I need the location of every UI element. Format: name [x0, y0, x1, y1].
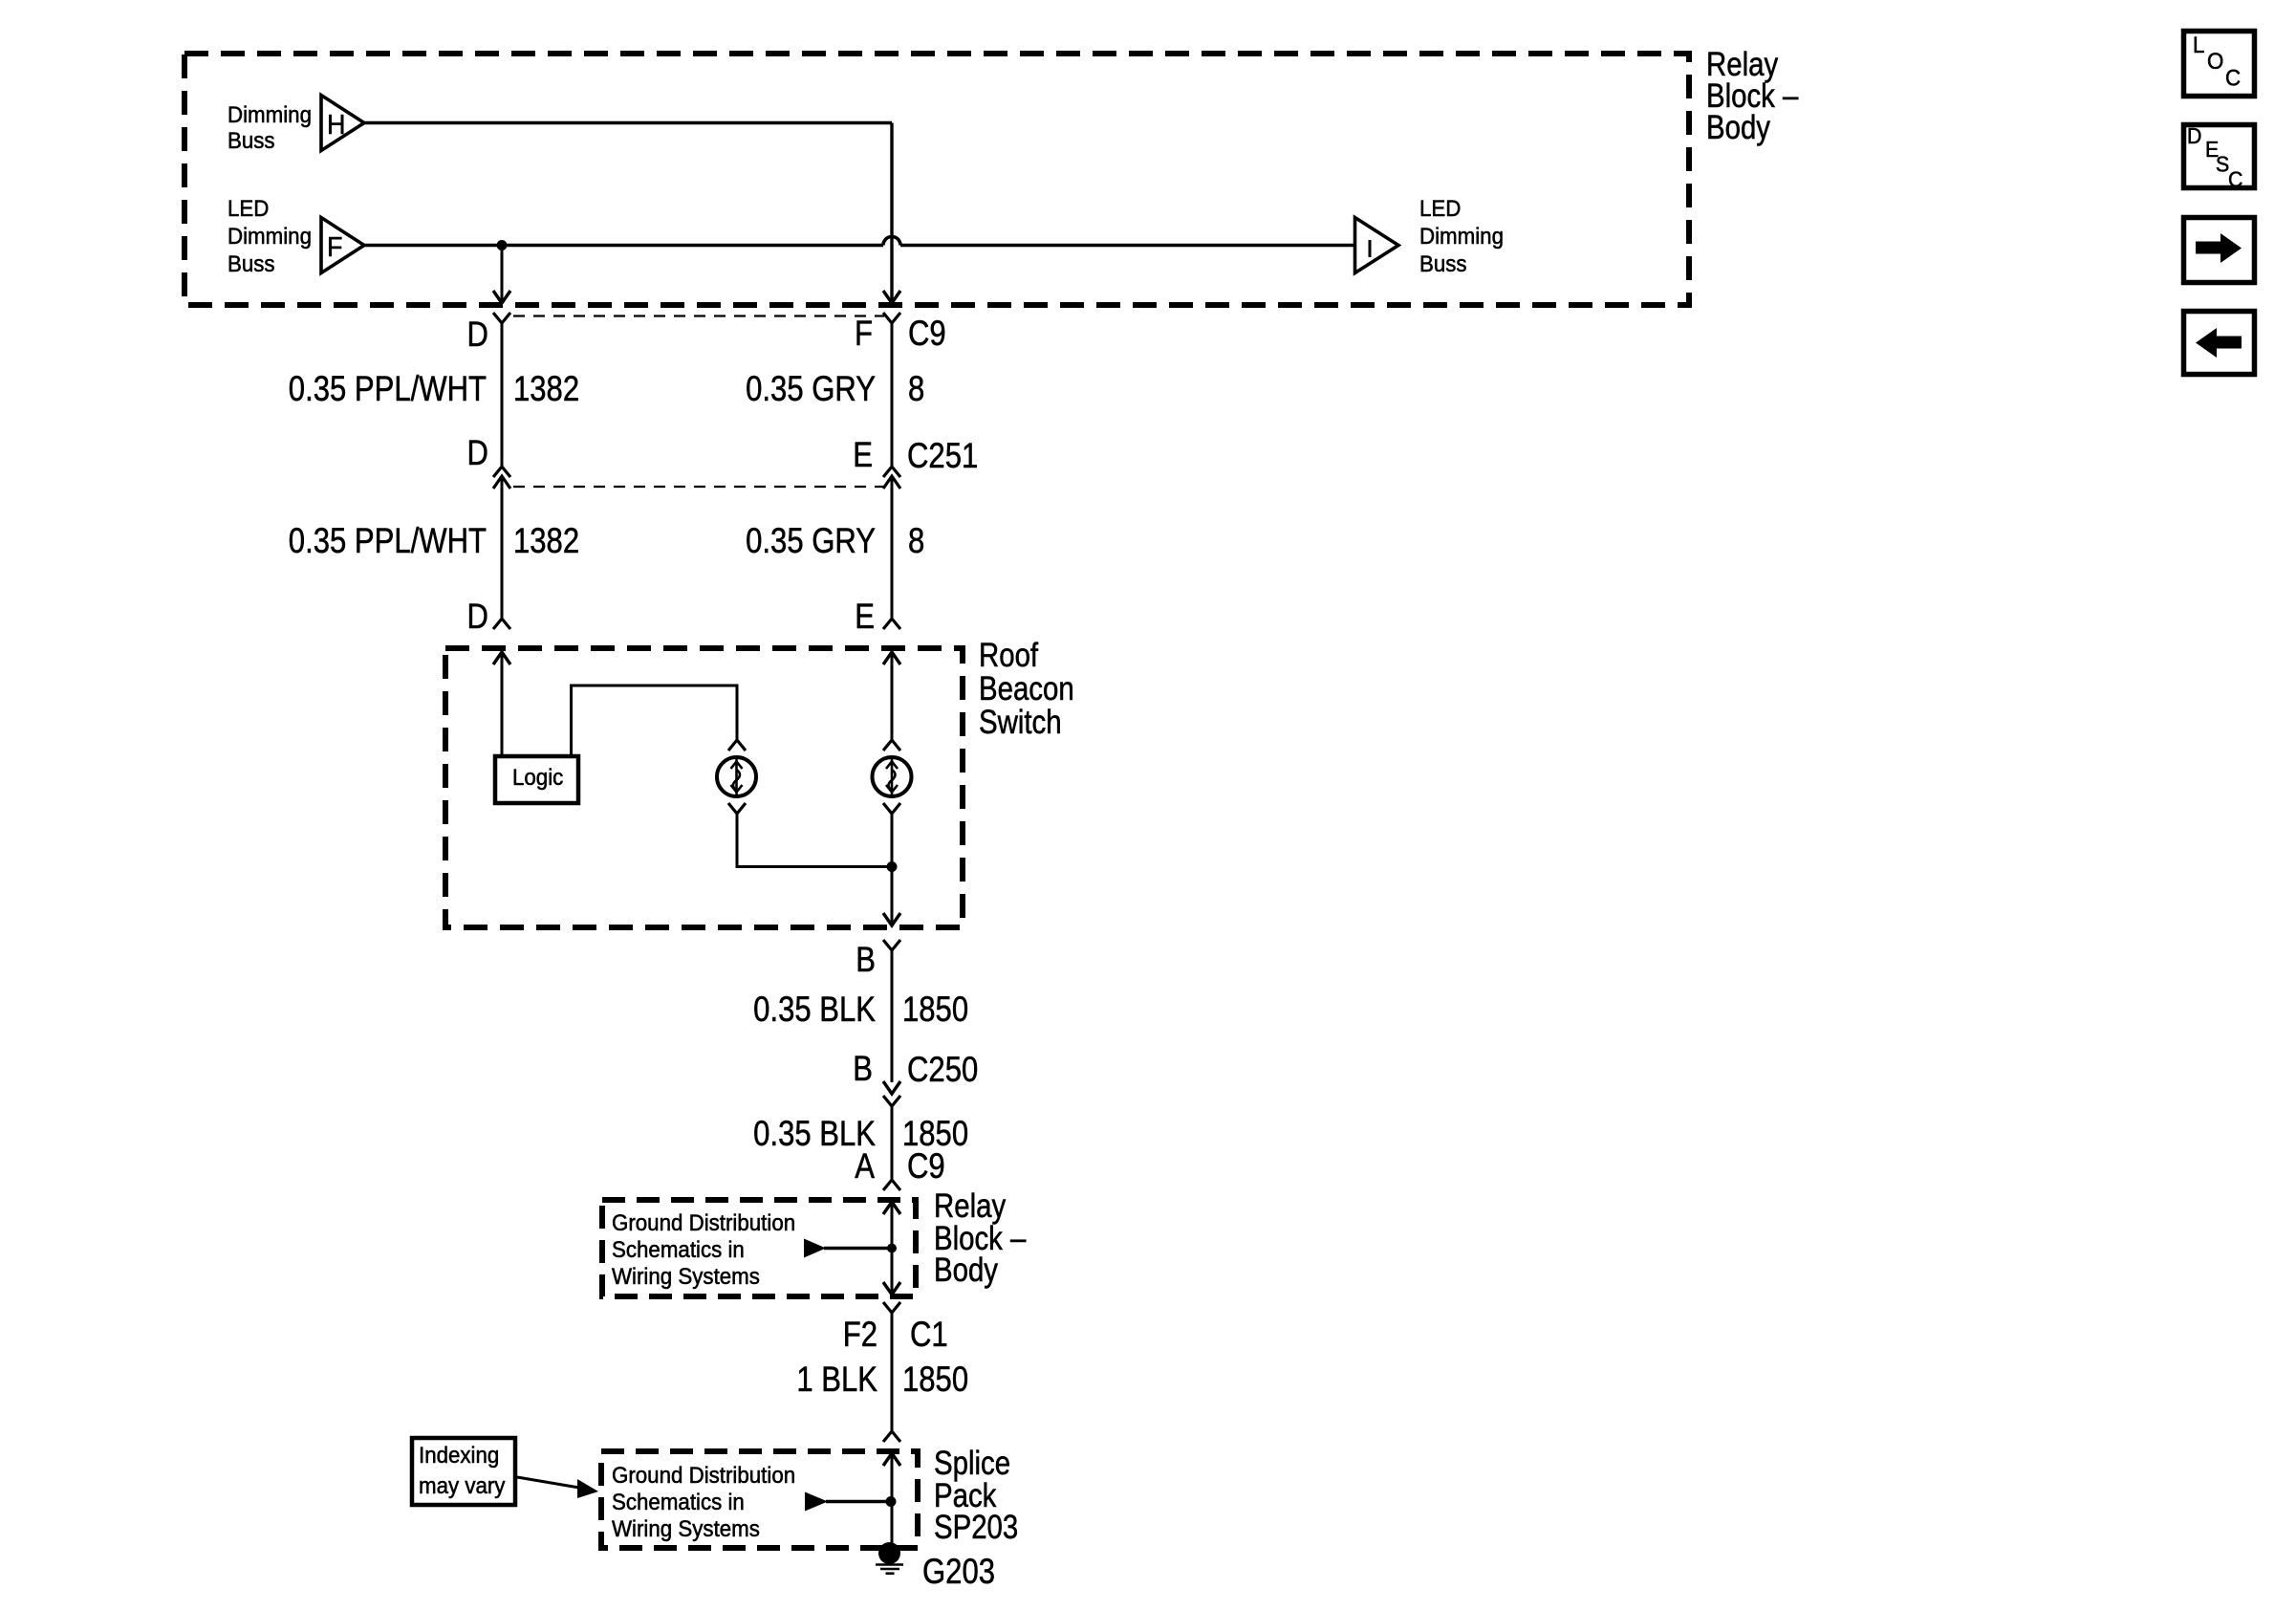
- label Splice Pack SP203: [934, 1445, 1018, 1546]
- connector label C1: [910, 1316, 948, 1355]
- label Relay Block - Body (lower): [934, 1187, 1026, 1289]
- splice pack dashed box: [601, 1451, 918, 1548]
- svg-text:Ground Distribution: Ground Distribution: [612, 1209, 795, 1235]
- svg-text:D: D: [467, 316, 488, 355]
- connector C251 thin dashed interface line: [513, 486, 884, 488]
- svg-text:C251: C251: [907, 437, 978, 476]
- label LED Dimming Buss (F): [227, 195, 312, 276]
- label Relay Block - Body (top): [1706, 46, 1798, 146]
- svg-text:H: H: [327, 109, 345, 140]
- svg-text:O: O: [2207, 48, 2223, 74]
- wire 1382 segment 1: [501, 323, 504, 467]
- svg-text:F2: F2: [843, 1316, 877, 1355]
- svg-text:G203: G203: [922, 1553, 995, 1592]
- svg-text:C: C: [2228, 167, 2242, 192]
- wire label 1850 (2): [902, 1115, 968, 1154]
- wire vertical drop from H buss: [890, 123, 893, 303]
- svg-text:Indexing: Indexing: [419, 1442, 499, 1468]
- wire 8 segment 2: [891, 476, 894, 618]
- svg-text:B: B: [856, 941, 876, 980]
- wire 1382 segment 2: [501, 476, 504, 618]
- svg-text:Wiring Systems: Wiring Systems: [612, 1263, 760, 1289]
- wire pin D to logic: [501, 652, 504, 754]
- wire F buss left segment: [364, 244, 883, 248]
- label LED Dimming Buss (I): [1419, 195, 1504, 276]
- junction dot on F buss: [497, 240, 508, 250]
- svg-text:Dimming: Dimming: [1419, 223, 1504, 249]
- ground distribution note (relay block): [612, 1209, 795, 1289]
- svg-text:C9: C9: [907, 1147, 945, 1186]
- connector triangle H: [321, 96, 364, 151]
- inverted-Y above splice pack: [883, 1431, 900, 1442]
- connector triangle F: [321, 218, 364, 273]
- junction dot (relay block): [887, 1244, 897, 1253]
- connector label C250: [907, 1051, 978, 1090]
- label Dimming Buss (H): [227, 101, 312, 153]
- wire label 1850 (3): [902, 1361, 968, 1400]
- pin label B at C250: [853, 1050, 873, 1089]
- svg-text:Buss: Buss: [1419, 250, 1467, 276]
- svg-text:A: A: [855, 1147, 875, 1186]
- svg-text:Logic: Logic: [512, 764, 563, 790]
- wire pin E down to right lamp: [891, 652, 894, 741]
- right lamp lower Y: [883, 803, 900, 814]
- connector label C9 (lower): [907, 1147, 945, 1186]
- wire label 1382 (1): [513, 370, 579, 409]
- svg-text:D: D: [2187, 123, 2201, 148]
- ground feed wire (splice pack): [826, 1500, 892, 1503]
- right lamp inverted-Y: [883, 740, 900, 751]
- svg-text:F: F: [855, 315, 873, 354]
- svg-text:1850: 1850: [902, 991, 968, 1030]
- wire through relay block: [891, 1202, 894, 1294]
- left lamp (indicator): [717, 757, 756, 796]
- connector C9 thin dashed interface line: [513, 315, 884, 316]
- female Y below switch (pin B): [883, 940, 900, 950]
- wire 1850 segment 3: [891, 1313, 894, 1430]
- logic box: [495, 756, 578, 803]
- svg-text:Schematics in: Schematics in: [612, 1236, 745, 1262]
- icon forward arrow box: [2184, 218, 2255, 283]
- connector C251 inverted-Y (left): [493, 467, 510, 477]
- pin label F at C9: [855, 315, 873, 354]
- connector C251 up arrow (left): [493, 476, 510, 489]
- svg-text:8: 8: [908, 522, 924, 561]
- svg-text:E: E: [855, 598, 875, 637]
- pin label E at C251: [853, 436, 873, 475]
- svg-text:0.35 GRY: 0.35 GRY: [746, 370, 876, 409]
- svg-text:LED: LED: [1419, 195, 1461, 221]
- arrow up inside switch (pin E): [883, 652, 900, 664]
- svg-text:1850: 1850: [902, 1361, 968, 1400]
- connector label C9: [908, 315, 946, 354]
- connector C9 female Y (right, pin F): [883, 313, 900, 323]
- wire label 8 (2): [908, 522, 924, 561]
- wire label 0.35 PPL/WHT (1): [289, 370, 487, 409]
- svg-text:1382: 1382: [513, 370, 579, 409]
- pin label D at switch: [467, 598, 488, 637]
- wire label 0.35 PPL/WHT (2): [289, 522, 487, 561]
- svg-text:Buss: Buss: [227, 250, 275, 276]
- svg-text:C: C: [2225, 65, 2241, 91]
- svg-text:1382: 1382: [513, 522, 579, 561]
- wire label 0.35 BLK (2): [753, 1115, 876, 1154]
- switch entry inverted-Y (left): [493, 619, 510, 629]
- svg-text:SP203: SP203: [934, 1509, 1018, 1546]
- switch entry inverted-Y (right): [883, 619, 900, 629]
- svg-text:0.35 PPL/WHT: 0.35 PPL/WHT: [289, 522, 487, 561]
- svg-text:C9: C9: [908, 315, 946, 354]
- ground distribution note (splice pack): [612, 1462, 795, 1541]
- wire 1850 segment 1: [891, 950, 894, 1082]
- wire 8 segment 1: [891, 323, 894, 467]
- svg-text:Beacon: Beacon: [979, 670, 1074, 708]
- wire hop over vertical drop: [883, 237, 900, 246]
- svg-text:Dimming: Dimming: [227, 223, 312, 249]
- wire label 1850 (1): [902, 991, 968, 1030]
- wire branch down from junction: [501, 246, 504, 303]
- svg-text:Dimming: Dimming: [227, 101, 312, 127]
- svg-text:F: F: [327, 231, 342, 262]
- relay block body (top) dashed box: [184, 54, 1689, 305]
- icon DESC box: [2184, 123, 2255, 191]
- relay block body (lower) dashed box: [602, 1200, 916, 1296]
- svg-text:C1: C1: [910, 1316, 948, 1355]
- arrow up inside relay block: [883, 1202, 900, 1214]
- svg-text:D: D: [467, 434, 488, 473]
- junction dot inside switch: [887, 861, 898, 872]
- label G203: [922, 1553, 995, 1592]
- svg-text:Switch: Switch: [979, 704, 1062, 741]
- svg-text:Body: Body: [934, 1252, 999, 1289]
- arrow up inside splice pack: [883, 1453, 900, 1466]
- svg-text:Roof: Roof: [979, 637, 1039, 674]
- wire label 0.35 GRY (1): [746, 370, 876, 409]
- pin label F2: [843, 1316, 877, 1355]
- svg-text:Wiring Systems: Wiring Systems: [612, 1515, 760, 1541]
- svg-text:8: 8: [908, 370, 924, 409]
- wire label 1382 (2): [513, 522, 579, 561]
- ground feed solid arrow (splice pack): [805, 1492, 828, 1512]
- left lamp lower Y: [728, 803, 746, 814]
- svg-text:1 BLK: 1 BLK: [796, 1361, 877, 1400]
- pin label D at C251: [467, 434, 488, 473]
- pin label E at switch: [855, 598, 875, 637]
- ground symbol G203: [876, 1565, 903, 1574]
- svg-text:Schematics in: Schematics in: [612, 1489, 745, 1514]
- ground stud G203: [878, 1542, 900, 1564]
- wire F buss right segment: [900, 244, 1355, 248]
- svg-text:0.35 PPL/WHT: 0.35 PPL/WHT: [289, 370, 487, 409]
- connector C250 female Y: [883, 1096, 900, 1106]
- label Roof Beacon Switch: [979, 637, 1074, 741]
- icon back arrow box: [2184, 312, 2255, 375]
- svg-text:may vary: may vary: [419, 1472, 506, 1498]
- arrow down at box edge (right wire): [883, 291, 900, 303]
- svg-text:0.35 BLK: 0.35 BLK: [753, 991, 876, 1030]
- female Y below relay block (pin F2): [883, 1302, 900, 1313]
- svg-text:Ground Distribution: Ground Distribution: [612, 1462, 795, 1488]
- pin label A at C9: [855, 1147, 875, 1186]
- connector C251 up arrow (right): [883, 476, 900, 489]
- ground feed wire (relay block): [824, 1247, 892, 1250]
- svg-text:E: E: [853, 436, 873, 475]
- indexing callout arrow: [517, 1477, 598, 1498]
- inverted-Y above relay block: [883, 1180, 900, 1190]
- wire label 0.35 BLK (1): [753, 991, 876, 1030]
- ground feed solid arrow (relay block): [804, 1239, 826, 1258]
- arrow down at box edge (left wire): [493, 291, 510, 303]
- connector C250 down arrow: [883, 1081, 900, 1094]
- roof beacon switch dashed box: [445, 648, 963, 927]
- svg-text:D: D: [467, 598, 488, 637]
- wire left lamp to junction: [737, 814, 892, 867]
- wire logic to left lamp: [572, 686, 738, 754]
- svg-text:LED: LED: [227, 195, 269, 221]
- arrow down at relay block bottom: [883, 1282, 900, 1295]
- connector C9 female Y (left, pin D): [493, 313, 510, 323]
- connector C251 inverted-Y (right): [883, 467, 900, 477]
- wire label 8 (1): [908, 370, 924, 409]
- arrow up inside switch (pin D): [493, 652, 510, 664]
- right lamp (indicator): [873, 757, 912, 796]
- junction dot (splice pack): [886, 1496, 897, 1507]
- svg-text:L: L: [2193, 32, 2205, 57]
- left lamp inverted-Y: [728, 740, 746, 751]
- pin label D at C9: [467, 316, 488, 355]
- svg-text:Buss: Buss: [227, 127, 275, 153]
- wire 1850 segment 2: [891, 1106, 894, 1180]
- svg-text:Body: Body: [1706, 109, 1771, 146]
- icon LOC box: [2184, 32, 2255, 97]
- svg-text:C250: C250: [907, 1051, 978, 1090]
- connector triangle I: [1355, 218, 1399, 273]
- svg-text:B: B: [853, 1050, 873, 1089]
- pin label B: [856, 941, 876, 980]
- indexing may vary note box: [412, 1438, 515, 1505]
- arrow down at switch bottom edge: [883, 913, 900, 925]
- wire right lamp to switch bottom: [891, 814, 894, 925]
- svg-text:0.35 GRY: 0.35 GRY: [746, 522, 876, 561]
- wire through splice pack to ground: [891, 1453, 894, 1545]
- wire from H to vertical drop: [364, 121, 892, 124]
- wire label 0.35 GRY (2): [746, 522, 876, 561]
- wire label 1 BLK: [796, 1361, 877, 1400]
- connector label C251: [907, 437, 978, 476]
